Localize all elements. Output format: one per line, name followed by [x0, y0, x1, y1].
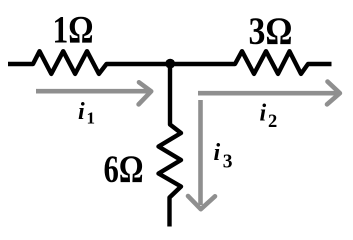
svg-text:1: 1	[87, 109, 96, 128]
svg-text:3: 3	[223, 152, 233, 173]
svg-text:6Ω: 6Ω	[104, 147, 144, 191]
svg-text:3Ω: 3Ω	[249, 9, 293, 53]
svg-text:1Ω: 1Ω	[53, 8, 94, 52]
svg-text:2: 2	[268, 112, 277, 132]
svg-text:i: i	[260, 100, 267, 126]
svg-text:i: i	[214, 140, 221, 166]
svg-text:i: i	[78, 99, 85, 125]
